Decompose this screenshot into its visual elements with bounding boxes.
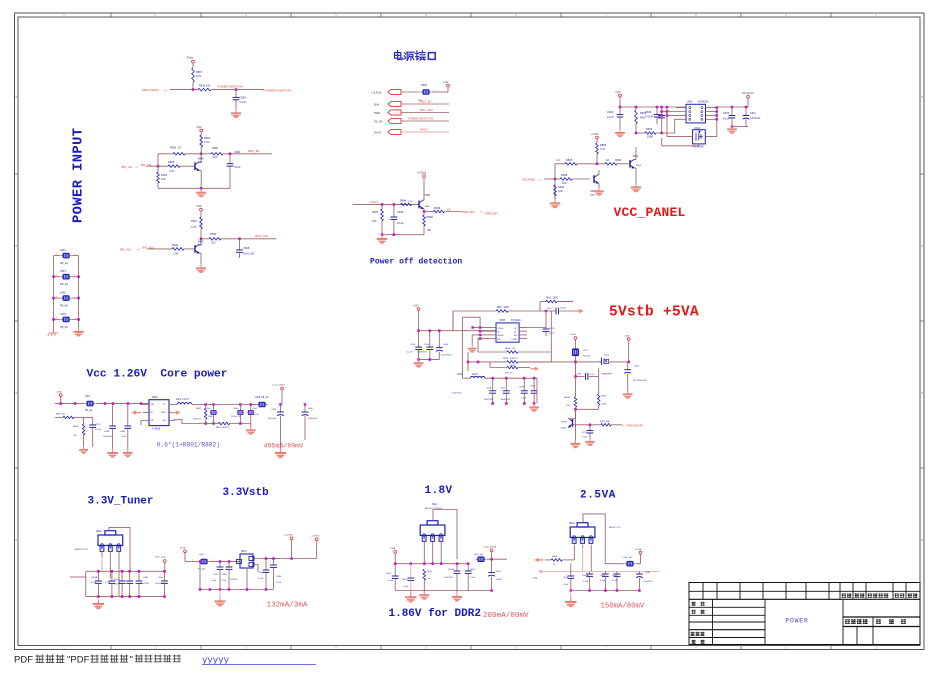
svg-text:100uF: 100uF bbox=[496, 579, 503, 581]
svg-text:B: B bbox=[921, 538, 923, 542]
svg-text:1.86V for DDR2: 1.86V for DDR2 bbox=[389, 608, 481, 620]
svg-text:PWR ON/OFF: PWR ON/OFF bbox=[627, 423, 644, 427]
svg-text:C8x2: C8x2 bbox=[253, 408, 259, 410]
svg-text:53K 1%: 53K 1% bbox=[505, 373, 513, 375]
svg-text:EN: EN bbox=[151, 420, 154, 422]
svg-text:+12V: +12V bbox=[413, 306, 419, 308]
svg-text:2.2uF: 2.2uF bbox=[583, 581, 589, 583]
svg-text:GND: GND bbox=[161, 412, 166, 414]
svg-text:C8x4: C8x4 bbox=[233, 408, 239, 410]
svg-text:C842: C842 bbox=[645, 572, 651, 574]
svg-text:BKLT_EN: BKLT_EN bbox=[248, 149, 259, 153]
svg-text:L816 FB_3A: L816 FB_3A bbox=[255, 396, 269, 399]
svg-text:C884: C884 bbox=[276, 576, 282, 578]
svg-text:BKL_ADJ: BKL_ADJ bbox=[120, 247, 132, 251]
svg-text:C8x9: C8x9 bbox=[206, 408, 212, 410]
svg-text:3904: 3904 bbox=[561, 428, 567, 430]
svg-text:>>POWER ON/OFF INV: >>POWER ON/OFF INV bbox=[263, 88, 292, 92]
svg-text:N8x6: N8x6 bbox=[569, 523, 575, 525]
svg-text:10uF/10V: 10uF/10V bbox=[103, 436, 113, 438]
svg-text:1: 1 bbox=[75, 318, 76, 320]
svg-text:22pF: 22pF bbox=[208, 416, 213, 418]
svg-text:..: .. bbox=[225, 651, 229, 655]
svg-text:N8x9: N8x9 bbox=[96, 531, 102, 533]
svg-text:5Vstb +5VA: 5Vstb +5VA bbox=[609, 305, 699, 321]
svg-text:PWR_DET: PWR_DET bbox=[462, 210, 475, 214]
svg-text:+5VA: +5VA bbox=[390, 547, 396, 550]
svg-text:L8?7: L8?7 bbox=[583, 350, 589, 352]
svg-text:5Vstb: 5Vstb bbox=[180, 547, 186, 550]
svg-text:C819: C819 bbox=[470, 569, 476, 571]
svg-text:L8x9: L8x9 bbox=[199, 554, 205, 556]
svg-text:13uF/16V: 13uF/16V bbox=[750, 117, 761, 120]
svg-text:PWR ON/OFF: PWR ON/OFF bbox=[142, 88, 159, 92]
svg-text:POWER ON/OFF INV: POWER ON/OFF INV bbox=[218, 85, 244, 89]
svg-text:C880: C880 bbox=[143, 577, 149, 579]
svg-text:C876: C876 bbox=[723, 111, 730, 115]
svg-text:L834: L834 bbox=[457, 374, 463, 376]
svg-text:B: B bbox=[921, 95, 923, 99]
svg-text:C8x4: C8x4 bbox=[443, 344, 449, 346]
svg-text:AD1117-2.5: AD1117-2.5 bbox=[609, 526, 621, 529]
svg-text:N801: N801 bbox=[152, 396, 158, 399]
svg-text:100: 100 bbox=[447, 208, 452, 211]
svg-text:>>: >> bbox=[135, 165, 139, 169]
svg-text:B: B bbox=[15, 538, 17, 542]
svg-text:68uF/16V: 68uF/16V bbox=[501, 399, 511, 401]
svg-text:VCC_PANEL: VCC_PANEL bbox=[614, 205, 686, 220]
svg-text:V8?2: V8?2 bbox=[604, 355, 610, 357]
svg-text:C8x4: C8x4 bbox=[600, 575, 606, 577]
svg-text:B: B bbox=[921, 244, 923, 248]
svg-text:3904: 3904 bbox=[636, 165, 642, 167]
svg-text:NC: NC bbox=[151, 412, 155, 414]
svg-text:3.3V_Tuner: 3.3V_Tuner bbox=[88, 496, 154, 508]
svg-text:2: 2 bbox=[192, 559, 193, 561]
svg-text:+3.3Vstb: +3.3Vstb bbox=[284, 534, 293, 537]
svg-text:C8x6: C8x6 bbox=[612, 575, 618, 577]
svg-text:C867: C867 bbox=[577, 373, 583, 375]
svg-text:R828 100K 1%: R828 100K 1% bbox=[503, 358, 518, 360]
svg-text:R8xx 100K: R8xx 100K bbox=[497, 307, 509, 309]
svg-text:FAULT: FAULT bbox=[374, 132, 382, 135]
svg-text:N8x0: N8x0 bbox=[241, 551, 247, 553]
svg-text:R8x5: R8x5 bbox=[427, 571, 433, 573]
svg-text:>>: >> bbox=[164, 88, 168, 92]
svg-text:0.5uF: 0.5uF bbox=[582, 437, 588, 439]
svg-text:POWER: POWER bbox=[785, 617, 808, 624]
svg-text:1.8V: 1.8V bbox=[425, 485, 453, 497]
svg-text:C8x9: C8x9 bbox=[424, 344, 430, 346]
svg-text:NC9435A: NC9435A bbox=[698, 101, 709, 104]
svg-text:2.5VA: 2.5VA bbox=[580, 490, 616, 502]
svg-text:AMS1117-3.3: AMS1117-3.3 bbox=[75, 548, 89, 551]
svg-text:R830: R830 bbox=[210, 232, 217, 236]
svg-text:V801: V801 bbox=[687, 101, 693, 104]
svg-text:4.7K: 4.7K bbox=[169, 169, 175, 173]
svg-text:L821: L821 bbox=[60, 269, 66, 273]
svg-text:0.1uF: 0.1uF bbox=[521, 398, 527, 400]
svg-text:3904: 3904 bbox=[425, 206, 431, 208]
svg-text:2.2uF: 2.2uF bbox=[612, 580, 618, 582]
svg-text:FB_4A: FB_4A bbox=[60, 325, 68, 329]
svg-text:C8?6: C8?6 bbox=[582, 432, 588, 434]
svg-text:R844: R844 bbox=[73, 426, 79, 428]
svg-text:3904: 3904 bbox=[198, 245, 204, 247]
svg-text:NC/0.1uF: NC/0.1uF bbox=[243, 251, 255, 255]
svg-text:POWER ON/OFF INV: POWER ON/OFF INV bbox=[408, 117, 434, 121]
svg-text:C878: C878 bbox=[549, 328, 555, 330]
svg-text:SY8120A: SY8120A bbox=[511, 319, 521, 322]
svg-text:L803: L803 bbox=[60, 312, 66, 316]
svg-text:5Vstb: 5Vstb bbox=[187, 57, 194, 60]
svg-text:COMP: COMP bbox=[511, 339, 518, 341]
svg-text:5Vstb: 5Vstb bbox=[570, 333, 576, 336]
svg-text:R847: R847 bbox=[372, 210, 379, 214]
svg-text:+5VA: +5VA bbox=[624, 335, 630, 338]
svg-text:C836: C836 bbox=[607, 110, 614, 114]
svg-text:0.1uF: 0.1uF bbox=[560, 308, 566, 310]
svg-text:FB01: FB01 bbox=[421, 83, 428, 87]
svg-text:Vcc 1.26V Core power: Vcc 1.26V Core power bbox=[87, 369, 228, 381]
svg-text:FAULT: FAULT bbox=[420, 128, 428, 132]
svg-text:C8x7: C8x7 bbox=[634, 366, 640, 368]
svg-text:10uH: 10uH bbox=[472, 374, 478, 376]
svg-text:"PDF: "PDF bbox=[67, 655, 90, 666]
svg-text:0.1uF: 0.1uF bbox=[211, 580, 217, 582]
svg-text:+5VA: +5VA bbox=[532, 577, 538, 580]
svg-text:180K: 180K bbox=[647, 135, 653, 139]
svg-text:0.1uF: 0.1uF bbox=[607, 115, 614, 119]
svg-text:R856: R856 bbox=[600, 143, 607, 147]
svg-text:DET?: DET? bbox=[547, 308, 553, 310]
svg-text:R801: R801 bbox=[196, 408, 202, 410]
svg-text:R833: R833 bbox=[646, 127, 653, 131]
svg-text:C873: C873 bbox=[213, 574, 219, 576]
svg-text:..: .. bbox=[204, 651, 208, 655]
svg-text:C809: C809 bbox=[240, 96, 247, 100]
svg-text:N855: N855 bbox=[500, 320, 506, 322]
svg-text:+3.3VM: +3.3VM bbox=[311, 536, 319, 538]
svg-text:B: B bbox=[921, 391, 923, 395]
svg-text:C8x4: C8x4 bbox=[386, 573, 392, 575]
svg-text:C899: C899 bbox=[397, 210, 404, 214]
svg-text:C839: C839 bbox=[120, 431, 126, 433]
svg-text:C8x0A: C8x0A bbox=[582, 574, 589, 577]
svg-text:N8x4: N8x4 bbox=[432, 504, 438, 506]
svg-text:0.1uF: 0.1uF bbox=[549, 333, 555, 335]
svg-text:1: 1 bbox=[622, 564, 623, 566]
svg-text:R8?3 50K: R8?3 50K bbox=[600, 421, 610, 423]
svg-text:0.1uF: 0.1uF bbox=[240, 100, 247, 104]
svg-text:1.9K: 1.9K bbox=[173, 252, 179, 256]
svg-text:W8?8: W8?8 bbox=[561, 421, 567, 423]
svg-text:150mA/80mV: 150mA/80mV bbox=[601, 603, 645, 611]
svg-text:0.47uF: 0.47uF bbox=[645, 115, 653, 119]
svg-text:4.7K: 4.7K bbox=[191, 225, 197, 229]
svg-text:0.1uF: 0.1uF bbox=[388, 580, 394, 582]
svg-text:NC/220uF/16V: NC/220uF/16V bbox=[633, 380, 647, 382]
svg-text:BKLT_ADJ: BKLT_ADJ bbox=[420, 108, 433, 112]
svg-text:+5VA: +5VA bbox=[56, 391, 62, 394]
svg-text:0.1uF: 0.1uF bbox=[121, 436, 127, 438]
svg-text:FB_4A: FB_4A bbox=[60, 282, 68, 286]
svg-text:Power off detection: Power off detection bbox=[370, 258, 462, 267]
svg-text:((: (( bbox=[622, 424, 624, 427]
svg-text:L801: L801 bbox=[60, 248, 66, 252]
svg-text:4.7K: 4.7K bbox=[408, 201, 413, 203]
svg-text:+12V: +12V bbox=[615, 92, 621, 94]
svg-text:R8x2 200K: R8x2 200K bbox=[546, 298, 558, 300]
svg-text:C8x6: C8x6 bbox=[402, 579, 408, 581]
svg-text:2.2uF: 2.2uF bbox=[403, 586, 409, 588]
svg-text:V805: V805 bbox=[425, 194, 431, 197]
svg-text:POWER INPUT: POWER INPUT bbox=[72, 128, 87, 223]
svg-text:2: 2 bbox=[56, 254, 57, 256]
svg-text:2.2uF: 2.2uF bbox=[105, 582, 111, 584]
svg-text:R835: R835 bbox=[566, 158, 573, 162]
svg-text:L822: L822 bbox=[60, 291, 66, 295]
svg-text:R827: R827 bbox=[191, 219, 198, 223]
svg-text:1: 1 bbox=[75, 296, 76, 298]
svg-text:FB_4A: FB_4A bbox=[60, 261, 68, 265]
svg-text:3904: 3904 bbox=[198, 162, 204, 164]
svg-text:0.6*(1+R801/R802): 0.6*(1+R801/R802) bbox=[157, 442, 220, 449]
svg-text:PWR_DET: PWR_DET bbox=[485, 212, 498, 216]
svg-text:3.3uF/16V: 3.3uF/16V bbox=[417, 352, 428, 354]
svg-text:..: .. bbox=[209, 651, 213, 655]
svg-text:10K: 10K bbox=[427, 228, 432, 232]
svg-text:PDF: PDF bbox=[14, 655, 33, 666]
svg-text:3904: 3904 bbox=[590, 194, 596, 196]
svg-text:C8x0: C8x0 bbox=[158, 577, 164, 579]
svg-text:MGND: MGND bbox=[498, 335, 505, 337]
svg-text:495mA/80mV: 495mA/80mV bbox=[264, 443, 304, 450]
svg-text:N8x2: N8x2 bbox=[695, 127, 701, 130]
svg-text:FB_4A: FB_4A bbox=[60, 304, 68, 308]
svg-text:C8x6A: C8x6A bbox=[91, 576, 98, 579]
svg-text:56uF/16V: 56uF/16V bbox=[140, 583, 150, 585]
svg-text:VCC-Panel: VCC-Panel bbox=[742, 93, 754, 95]
svg-text:R849: R849 bbox=[434, 206, 441, 210]
svg-text:R844: R844 bbox=[400, 198, 407, 202]
svg-text:100K: 100K bbox=[602, 404, 608, 406]
svg-text:R848: R848 bbox=[427, 215, 434, 219]
svg-text:22uF/6.3V: 22uF/6.3V bbox=[308, 418, 318, 420]
svg-text:C804: C804 bbox=[222, 574, 228, 576]
svg-text:VIN: VIN bbox=[151, 404, 155, 406]
svg-text:C846: C846 bbox=[410, 344, 416, 346]
svg-text:0.1uF: 0.1uF bbox=[276, 582, 282, 584]
svg-text:C823: C823 bbox=[234, 150, 241, 154]
svg-text:+3.3VA: +3.3VA bbox=[591, 133, 599, 136]
svg-text:100: 100 bbox=[213, 155, 218, 159]
svg-text:+2.5VA: +2.5VA bbox=[634, 548, 642, 551]
svg-text:4.7K: 4.7K bbox=[196, 74, 202, 78]
svg-text:FB_4A: FB_4A bbox=[583, 355, 590, 358]
svg-text:R832: R832 bbox=[172, 243, 179, 247]
svg-text:+3.3Vstb: +3.3Vstb bbox=[417, 172, 427, 175]
svg-text:R806: R806 bbox=[615, 158, 622, 162]
svg-text:200mA/80mV: 200mA/80mV bbox=[483, 612, 529, 620]
svg-text:47K: 47K bbox=[566, 405, 570, 407]
svg-text:1K: 1K bbox=[606, 158, 609, 162]
svg-text:ENA: ENA bbox=[374, 104, 379, 107]
svg-text:PMN905EP: PMN905EP bbox=[602, 374, 613, 376]
svg-text:0.1uF: 0.1uF bbox=[397, 221, 404, 225]
svg-text:C8x9: C8x9 bbox=[500, 388, 506, 390]
svg-text:22uF/6.3V: 22uF/6.3V bbox=[155, 583, 165, 585]
svg-text:0.1uF: 0.1uF bbox=[114, 584, 120, 586]
svg-text:2.2uF: 2.2uF bbox=[258, 578, 264, 580]
svg-text:10uF/10V: 10uF/10V bbox=[444, 577, 454, 579]
svg-text:100: 100 bbox=[562, 181, 567, 185]
svg-text:R824: R824 bbox=[168, 160, 175, 164]
svg-text:1: 1 bbox=[212, 559, 213, 561]
svg-text:0.1uF: 0.1uF bbox=[600, 580, 606, 582]
svg-text:RT9193: RT9193 bbox=[230, 579, 238, 581]
svg-text:BKL_ON: BKL_ON bbox=[122, 165, 132, 169]
svg-text:C8x1: C8x1 bbox=[496, 571, 502, 573]
svg-text:C8x4$: C8x4$ bbox=[448, 569, 455, 571]
svg-text::: : bbox=[884, 620, 885, 625]
svg-text:C808: C808 bbox=[243, 246, 250, 250]
svg-text:L8x3 2.2uH: L8x3 2.2uH bbox=[176, 399, 189, 401]
svg-text:1: 1 bbox=[473, 560, 474, 562]
svg-text:10K/1%: 10K/1% bbox=[193, 419, 201, 421]
svg-text:NC/22uF: NC/22uF bbox=[268, 418, 277, 420]
svg-text:+1.8V_DDR$: +1.8V_DDR$ bbox=[483, 546, 497, 548]
svg-text:4.7K: 4.7K bbox=[204, 140, 210, 144]
svg-text:V814: V814 bbox=[633, 155, 639, 158]
svg-text:10K: 10K bbox=[372, 219, 377, 223]
svg-text:DE3#: DE3# bbox=[308, 408, 314, 410]
svg-text:22uF/6.3V: 22uF/6.3V bbox=[643, 581, 653, 583]
svg-text:B: B bbox=[15, 391, 17, 395]
svg-text:R823: R823 bbox=[161, 173, 168, 177]
svg-text:>>: >> bbox=[137, 248, 141, 252]
svg-text:FAULT: FAULT bbox=[370, 200, 378, 204]
svg-text:L8x7 FB: L8x7 FB bbox=[474, 554, 483, 556]
svg-text:R8x2: R8x2 bbox=[602, 396, 608, 398]
svg-text:B: B bbox=[15, 95, 17, 99]
svg-text:R838: R838 bbox=[561, 173, 568, 177]
svg-text:V803: V803 bbox=[198, 239, 205, 243]
svg-text:2: 2 bbox=[56, 318, 57, 320]
svg-text:R8x6: R8x6 bbox=[510, 365, 516, 367]
svg-text:0.1uF: 0.1uF bbox=[234, 165, 241, 169]
svg-text:+12V: +12V bbox=[443, 82, 449, 84]
svg-text:R8x2 100/1%: R8x2 100/1% bbox=[216, 427, 229, 429]
svg-text:10uF/16V: 10uF/16V bbox=[452, 392, 462, 394]
svg-text:10K: 10K bbox=[558, 189, 563, 193]
svg-text:R8x44: R8x44 bbox=[564, 397, 571, 399]
svg-text:2: 2 bbox=[56, 275, 57, 277]
svg-text:0.1uF: 0.1uF bbox=[91, 582, 97, 584]
svg-text:0.1uF: 0.1uF bbox=[254, 414, 260, 416]
svg-text:BKLT_ADJ: BKLT_ADJ bbox=[255, 234, 268, 238]
svg-text:..: .. bbox=[220, 651, 224, 655]
svg-text:C8?2: C8?2 bbox=[96, 424, 102, 426]
svg-text:132mA/3mA: 132mA/3mA bbox=[267, 602, 308, 610]
svg-text:+12.5V(6: +12.5V(6 bbox=[371, 92, 382, 95]
svg-text:C878: C878 bbox=[519, 387, 525, 389]
svg-text:+1.2V_VDDC: +1.2V_VDDC bbox=[272, 385, 286, 387]
svg-text:0.1uF: 0.1uF bbox=[407, 352, 413, 354]
svg-text:+5VA: +5VA bbox=[196, 205, 202, 208]
svg-text:C8x3: C8x3 bbox=[563, 577, 569, 579]
svg-text:1: 1 bbox=[75, 275, 76, 277]
svg-text:2: 2 bbox=[56, 296, 57, 298]
svg-text:C8xA: C8xA bbox=[486, 387, 492, 390]
svg-text:V806: V806 bbox=[198, 157, 205, 161]
svg-text:..: .. bbox=[214, 651, 218, 655]
svg-text:0.1uF: 0.1uF bbox=[96, 429, 102, 431]
svg-text:R8x9 NC: R8x9 NC bbox=[505, 348, 516, 350]
svg-text:>>: >> bbox=[539, 178, 543, 182]
svg-text:68uF/16V: 68uF/16V bbox=[484, 399, 494, 401]
svg-text:L8x0 FB: L8x0 FB bbox=[623, 557, 632, 559]
svg-text:ON_PANEL: ON_PANEL bbox=[522, 178, 536, 182]
svg-text:+5VA: +5VA bbox=[196, 126, 202, 129]
svg-text:": " bbox=[130, 655, 133, 666]
svg-text:1 K: 1 K bbox=[556, 158, 560, 162]
svg-text:FB_4A: FB_4A bbox=[85, 409, 92, 412]
svg-text:C8x5: C8x5 bbox=[259, 572, 265, 574]
svg-text:R8x2 100: R8x2 100 bbox=[56, 414, 66, 416]
svg-text:2: 2 bbox=[489, 560, 490, 562]
svg-text:PWM: PWM bbox=[374, 112, 380, 115]
svg-text:R826 1K: R826 1K bbox=[170, 146, 181, 150]
svg-text:C8x5: C8x5 bbox=[114, 579, 120, 581]
svg-text:R807: R807 bbox=[196, 70, 203, 74]
svg-text:0.1uF: 0.1uF bbox=[563, 584, 569, 586]
svg-text:R8x8: R8x8 bbox=[552, 556, 558, 558]
svg-text:4.7K: 4.7K bbox=[600, 147, 606, 151]
svg-text:0.1uF: 0.1uF bbox=[723, 117, 730, 121]
svg-text:BKLT_EN: BKLT_EN bbox=[420, 100, 431, 104]
svg-text:SY8008: SY8008 bbox=[152, 429, 161, 431]
svg-text:B: B bbox=[15, 244, 17, 248]
svg-text:C8x2: C8x2 bbox=[750, 112, 756, 115]
svg-text:>>: >> bbox=[480, 210, 484, 214]
svg-text:2: 2 bbox=[639, 564, 640, 566]
svg-text:R818 100: R818 100 bbox=[199, 83, 211, 87]
svg-text:3.3V_Tuner: 3.3V_Tuner bbox=[155, 556, 167, 559]
svg-text:C8x7: C8x7 bbox=[530, 386, 536, 388]
svg-text:R840: R840 bbox=[558, 185, 565, 189]
svg-text:1: 1 bbox=[75, 254, 76, 256]
svg-text:100: 100 bbox=[161, 177, 166, 181]
svg-text:2.2uF: 2.2uF bbox=[221, 580, 227, 582]
svg-text:R804: R804 bbox=[204, 136, 211, 140]
svg-text:C846: C846 bbox=[104, 431, 110, 433]
svg-text:_C845: _C845 bbox=[269, 409, 277, 411]
svg-text:100: 100 bbox=[211, 241, 216, 245]
svg-text:22uF/4.7V: 22uF/4.7V bbox=[231, 416, 241, 418]
svg-text:PGND: PGND bbox=[498, 328, 504, 330]
svg-text:C835: C835 bbox=[645, 110, 652, 114]
svg-text:L8x5: L8x5 bbox=[85, 396, 91, 398]
svg-text:3.3Vstb: 3.3Vstb bbox=[223, 487, 270, 499]
svg-text:FB_4A: FB_4A bbox=[198, 568, 205, 571]
svg-text:220uF/16V: 220uF/16V bbox=[441, 354, 452, 356]
svg-text:0.1uF: 0.1uF bbox=[470, 577, 476, 579]
svg-text:R822: R822 bbox=[212, 146, 219, 150]
svg-text:PS_ON: PS_ON bbox=[374, 121, 383, 124]
